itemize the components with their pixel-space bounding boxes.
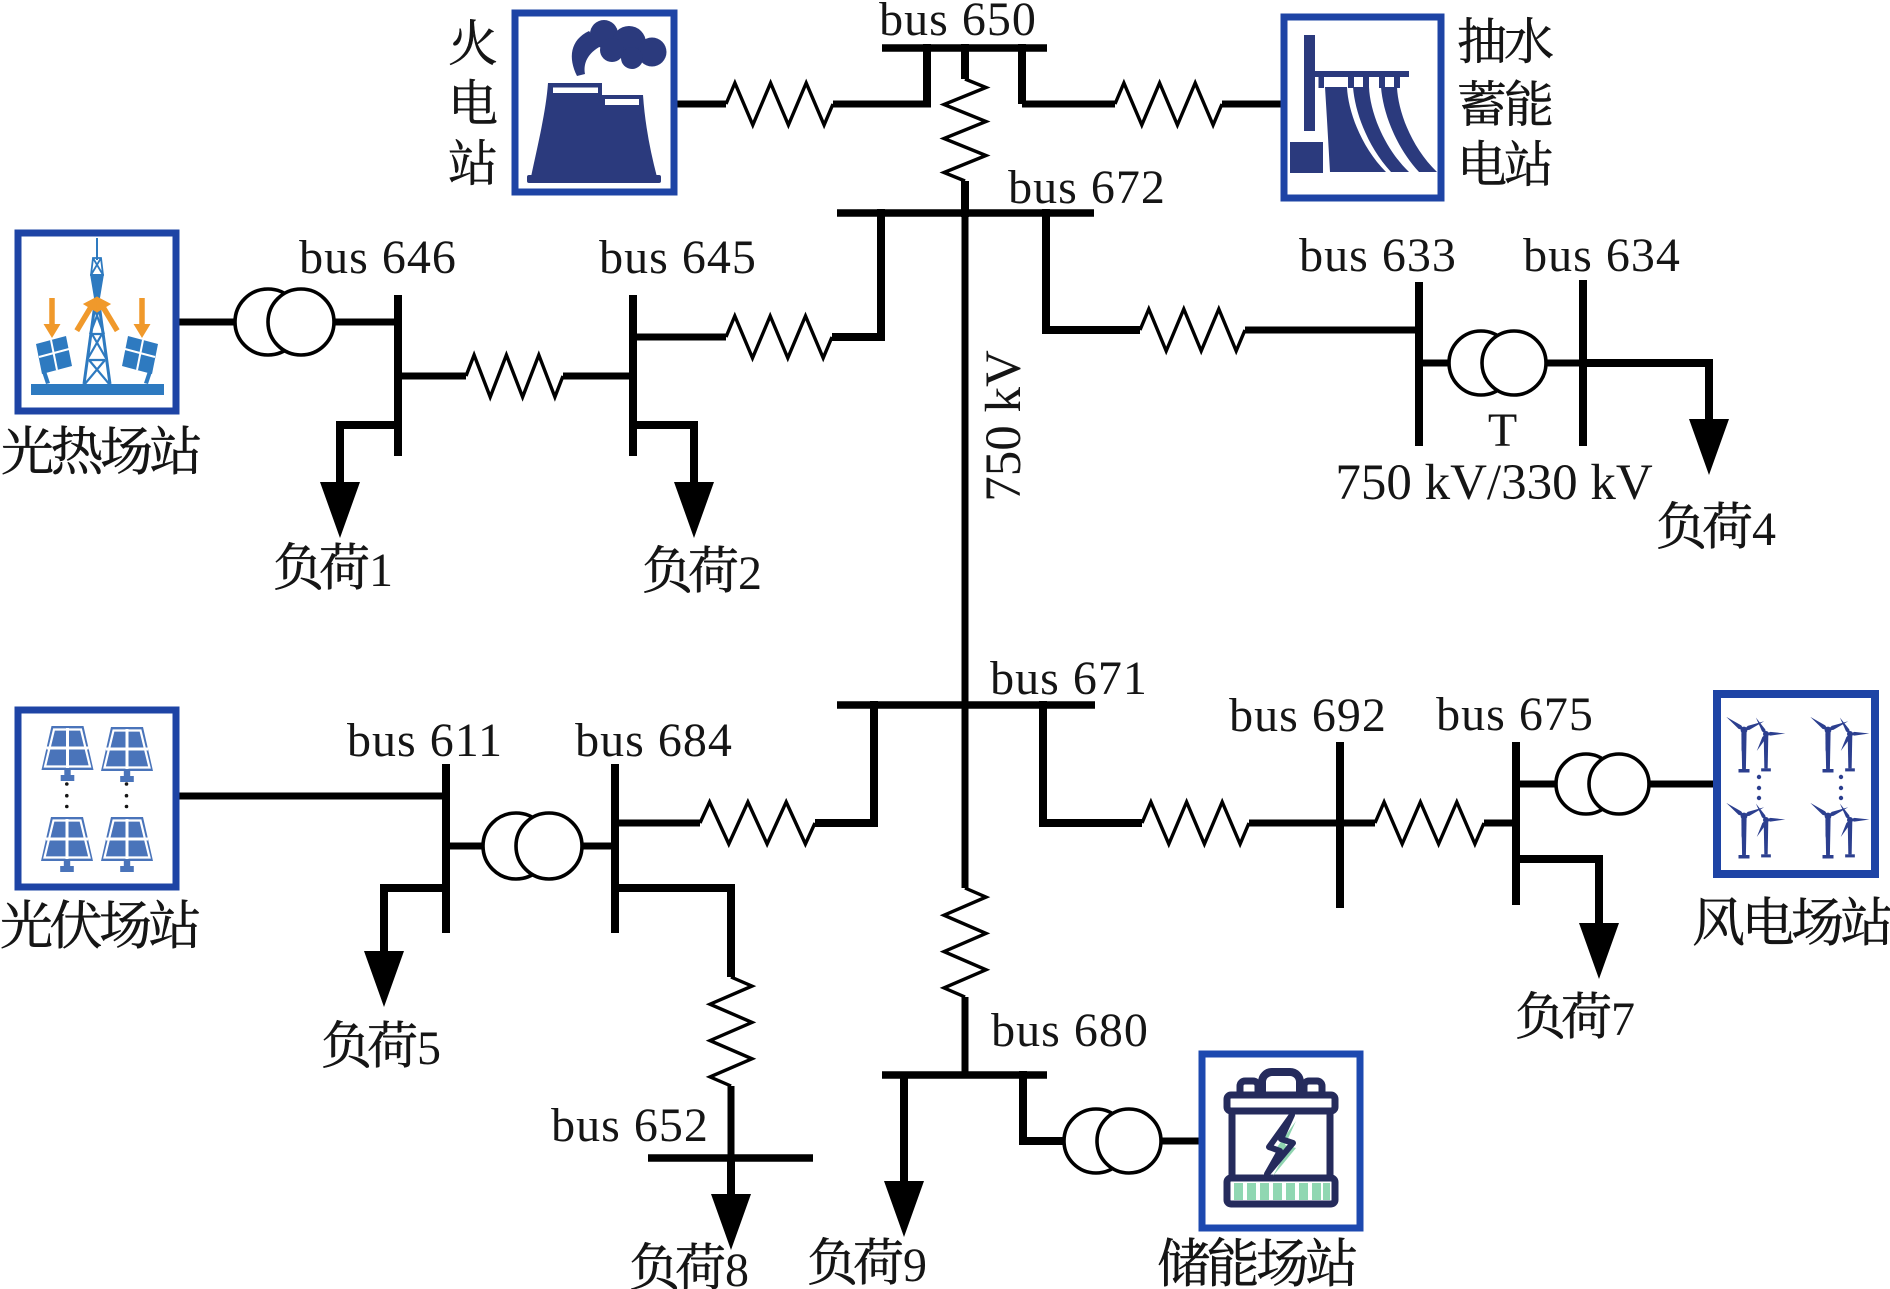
svg-text:5: 5 bbox=[417, 1022, 441, 1075]
svg-text:bus 633: bus 633 bbox=[1299, 229, 1457, 282]
wire resistor to bus633 bbox=[1245, 327, 1419, 334]
bus 680 bbox=[882, 1071, 1047, 1079]
energy-storage station label 储能场站 bbox=[1159, 1238, 1209, 1287]
PV station icon (solar panels) bbox=[42, 726, 94, 781]
resistor line 650-pumped bbox=[1115, 83, 1222, 125]
wire transformer to bus684 bbox=[582, 843, 615, 850]
load 7 arrow bbox=[1579, 923, 1619, 979]
wire resistor to bus692 bbox=[1249, 820, 1340, 827]
wire thermal plant to resistor bbox=[677, 101, 726, 108]
wire bus672 left arm bbox=[832, 209, 881, 337]
load 9 label bbox=[809, 1237, 855, 1285]
wire bus646 to resistor bbox=[398, 373, 466, 380]
wire bus675 to wind transformer bbox=[1516, 781, 1556, 788]
load 1 arrow bbox=[320, 482, 360, 538]
svg-text:8: 8 bbox=[725, 1244, 749, 1289]
wire bus633 to transformer T bbox=[1419, 360, 1449, 367]
resistor line 672-645 bbox=[726, 316, 832, 358]
wire resistor to bus672 bbox=[961, 181, 969, 217]
wire bus692 to resistor bbox=[1340, 820, 1375, 827]
bus 650 bbox=[882, 44, 1047, 52]
load 2 arrow bbox=[674, 482, 714, 538]
transformer T 633-634 bbox=[1449, 331, 1513, 395]
wire resistor to bus684 bbox=[615, 820, 700, 827]
svg-text:T: T bbox=[1488, 404, 1518, 457]
resistor line 672-633 bbox=[1140, 309, 1245, 351]
wire load2 arm bbox=[633, 425, 694, 485]
bus 672 bbox=[837, 209, 1094, 217]
resistor line 646-645 bbox=[466, 355, 563, 397]
thermal power station label 火电站 bbox=[450, 19, 496, 65]
wire resistor to bus652 bbox=[728, 1086, 735, 1158]
transformer bus680-storage bbox=[1064, 1109, 1128, 1173]
wire transformer to wind farm bbox=[1649, 781, 1714, 788]
wire resistor to bus645 bbox=[563, 373, 633, 380]
wire load9 stem bbox=[900, 1075, 908, 1184]
wire transformer to storage station bbox=[1161, 1138, 1199, 1145]
load 5 label bbox=[323, 1020, 369, 1068]
svg-text:2: 2 bbox=[738, 547, 762, 600]
resistor line 671-680 bbox=[944, 888, 986, 997]
svg-text:1: 1 bbox=[369, 544, 393, 597]
solar-thermal station label 光热场站 bbox=[3, 426, 52, 475]
svg-text:4: 4 bbox=[1752, 503, 1776, 556]
resistor line 650-672 bbox=[944, 79, 986, 181]
wire 750kV line 672-671 bbox=[962, 213, 969, 705]
PV station label 光伏场站 bbox=[2, 900, 51, 949]
PV station icon (box) bbox=[18, 710, 176, 887]
svg-text:bus 671: bus 671 bbox=[990, 652, 1148, 705]
bus 633 bbox=[1415, 282, 1423, 446]
load 2 label bbox=[644, 545, 690, 593]
svg-text:7: 7 bbox=[1611, 993, 1635, 1046]
load 8 label bbox=[631, 1242, 677, 1289]
svg-text:bus 652: bus 652 bbox=[551, 1099, 709, 1152]
bus 646 bbox=[394, 295, 402, 456]
wire resistor to pumped-storage plant bbox=[1222, 101, 1281, 108]
svg-text:bus 650: bus 650 bbox=[879, 0, 1037, 46]
wind farm station label 风电场站 bbox=[1694, 897, 1743, 945]
bus 634 bbox=[1579, 280, 1587, 446]
load 1 label bbox=[275, 542, 321, 590]
solar-thermal station icon (tower, panels, arrows) bbox=[31, 238, 164, 395]
resistor line 692-675 bbox=[1375, 802, 1484, 844]
load 8 arrow bbox=[711, 1194, 751, 1250]
wire resistor to bus675 bbox=[1484, 820, 1516, 827]
wire bus671 right arm bbox=[1043, 701, 1142, 823]
svg-text:bus 692: bus 692 bbox=[1229, 689, 1387, 742]
resistor line thermal-650 bbox=[726, 83, 833, 125]
pumped-storage station label 抽水蓄能电站 bbox=[1459, 17, 1505, 63]
wire bus650 right stub bbox=[1018, 44, 1026, 104]
svg-text:bus 680: bus 680 bbox=[991, 1004, 1149, 1057]
wire load1 arm bbox=[340, 425, 398, 485]
bus 645 bbox=[629, 295, 637, 456]
energy-storage station icon (battery) bbox=[1227, 1072, 1335, 1204]
wire load5 arm bbox=[384, 888, 446, 953]
wire load8 stem bbox=[727, 1158, 735, 1199]
wire bus611 to transformer bbox=[446, 843, 483, 850]
bus 611 bbox=[442, 764, 450, 933]
svg-text:bus 684: bus 684 bbox=[575, 714, 733, 767]
svg-text:750 kV/330 kV: 750 kV/330 kV bbox=[1335, 455, 1653, 511]
energy-storage station icon (box) bbox=[1202, 1054, 1360, 1228]
svg-text:9: 9 bbox=[903, 1239, 927, 1289]
load 4 label bbox=[1658, 501, 1704, 549]
pumped-storage station icon (box) bbox=[1284, 17, 1441, 198]
wire bus671 to 680 resistor bbox=[962, 705, 969, 888]
svg-text:bus 646: bus 646 bbox=[299, 231, 457, 284]
wind farm station icon (wind turbines) bbox=[1725, 715, 1765, 773]
wire transformer to bus646 bbox=[334, 319, 398, 326]
wire bus650 left stub bbox=[923, 44, 931, 104]
resistor line 684-652 bbox=[710, 977, 752, 1086]
resistor line 684-671 bbox=[700, 802, 815, 844]
wire bus650 to thermal resistor bbox=[833, 101, 931, 108]
bus 684 bbox=[611, 764, 619, 933]
load 5 arrow bbox=[364, 951, 404, 1007]
svg-text:750 kV: 750 kV bbox=[976, 350, 1032, 502]
resistor line 671-692 bbox=[1142, 802, 1249, 844]
load 7 label bbox=[1517, 991, 1563, 1039]
wire resistor to bus645 bbox=[633, 334, 726, 341]
thermal power station icon (box) bbox=[515, 13, 674, 192]
solar-thermal station icon (box) bbox=[18, 233, 176, 411]
thermal power station icon (cooling tower and smoke) bbox=[527, 20, 667, 183]
bus 671 bbox=[837, 701, 1095, 709]
wire PV station to bus611 bbox=[179, 793, 446, 800]
load 9 arrow bbox=[884, 1181, 924, 1237]
bus 675 bbox=[1512, 742, 1520, 905]
transformer 611-684 bbox=[483, 813, 549, 879]
wire solar-thermal to transformer bbox=[179, 319, 235, 326]
wire bus680 right stub bbox=[1023, 1071, 1064, 1141]
load 4 arrow bbox=[1689, 419, 1729, 475]
svg-text:bus 672: bus 672 bbox=[1008, 161, 1166, 214]
wire transformer to bus634 bbox=[1546, 360, 1583, 367]
wire load7 arm bbox=[1512, 859, 1599, 927]
bus 692 bbox=[1336, 742, 1344, 908]
wire resistor to bus680 bbox=[962, 997, 969, 1075]
wire bus684 lower arm bbox=[615, 888, 731, 977]
wire load4 arm bbox=[1583, 363, 1709, 422]
bus 652 bbox=[648, 1154, 813, 1162]
wire bus650 middle stub bbox=[961, 44, 969, 79]
wind farm station icon (box) bbox=[1717, 694, 1875, 874]
svg-text:bus 645: bus 645 bbox=[599, 231, 757, 284]
transformer bus675-wind bbox=[1556, 754, 1616, 814]
wire bus672 right arm bbox=[1046, 209, 1140, 330]
transformer thermal-646 bbox=[235, 289, 301, 355]
svg-text:bus 634: bus 634 bbox=[1523, 229, 1681, 282]
wire bus671 left arm bbox=[815, 701, 874, 823]
svg-text:bus 675: bus 675 bbox=[1436, 688, 1594, 741]
wire bus650 to pumped resistor bbox=[1022, 101, 1115, 108]
pumped-storage station icon (dam) bbox=[1290, 35, 1437, 173]
svg-text:bus 611: bus 611 bbox=[347, 714, 503, 767]
